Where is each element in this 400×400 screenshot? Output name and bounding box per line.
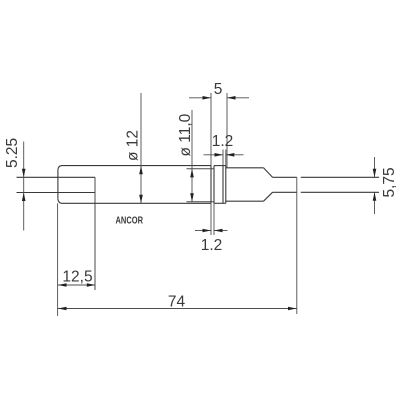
dimension 74 line — [58, 308, 297, 310]
arrow 5 left — [203, 96, 212, 100]
svg-text:5: 5 — [214, 81, 223, 98]
extension line for 5 dim right — [226, 93, 228, 168]
arrow 74 left — [58, 307, 67, 311]
extension line for 5 dim left / groove left, above and below body — [210, 93, 212, 166]
arrow dia11 top — [190, 169, 194, 178]
ring right face — [225, 166, 227, 204]
arrow 5,75 top — [373, 169, 377, 178]
groove left face — [210, 166, 212, 204]
arrow 5.25 bottom — [22, 193, 26, 202]
extension line groove right below body — [213, 203, 215, 235]
stub bottom edge — [226, 200, 264, 202]
stub top edge — [226, 167, 264, 169]
extension line right end (for 74) — [296, 177, 298, 314]
body bottom edge — [62, 202, 212, 204]
arrow 5 right — [227, 96, 236, 100]
dimension 1.2 top line — [204, 154, 224, 156]
svg-text:1.2: 1.2 — [212, 133, 234, 150]
svg-text:12,5: 12,5 — [62, 268, 92, 285]
taper top — [264, 168, 273, 178]
arrow dia11 bottom — [190, 193, 194, 202]
groove right face — [213, 166, 215, 204]
arrow 5,75 bottom — [373, 192, 377, 201]
arrow 1.2 bottom right — [214, 229, 223, 233]
body chamfer top-left — [58, 166, 62, 170]
body bottom edge right of groove — [214, 202, 226, 204]
dimension 5.25 line — [23, 142, 25, 231]
cable top line — [273, 176, 297, 178]
dimension 5,75 line — [374, 157, 376, 177]
body top edge — [62, 165, 212, 167]
arrow dia12 bottom — [139, 195, 143, 204]
extension lines ring above body — [222, 150, 224, 166]
svg-text:1.2: 1.2 — [201, 237, 223, 254]
body chamfer bottom-left — [58, 199, 62, 203]
pin top line — [17, 176, 96, 178]
svg-text:5,75: 5,75 — [381, 167, 398, 197]
arrow 1.2 top left — [215, 153, 224, 157]
dimension dia 12 line — [140, 93, 142, 203]
svg-text:ø 12: ø 12 — [125, 130, 142, 161]
arrow 5.25 top — [22, 169, 26, 178]
arrow 12,5 left — [58, 283, 67, 287]
groove root bottom / dia 11 tick — [187, 201, 215, 203]
dimension 12,5 line — [58, 284, 95, 286]
extension line left end (for 12,5 and 74) — [57, 203, 59, 316]
cable bottom line — [273, 191, 297, 193]
svg-text:ANCOR: ANCOR — [116, 215, 144, 227]
body left edge — [57, 170, 59, 199]
dimension dia 11,0 line — [191, 110, 193, 202]
dimension 5 line — [189, 97, 211, 99]
svg-text:74: 74 — [168, 293, 186, 310]
svg-text:ø 11,0: ø 11,0 — [177, 113, 194, 156]
arrow 74 right — [288, 307, 297, 311]
arrow dia12 top — [139, 166, 143, 175]
groove root top / dia 11 tick — [187, 168, 215, 170]
arrow 1.2 top right — [226, 153, 235, 157]
dimension 1.2 bottom line — [195, 230, 211, 232]
taper bottom — [264, 192, 273, 201]
svg-text:5.25: 5.25 — [4, 138, 21, 168]
body top edge right of groove — [214, 165, 226, 167]
pin bottom line — [17, 192, 96, 194]
pin inner end / extension line for 12,5 — [94, 177, 96, 290]
arrow 12,5 right — [87, 283, 96, 287]
arrow 1.2 bottom left — [203, 229, 212, 233]
ring left face — [222, 166, 224, 204]
